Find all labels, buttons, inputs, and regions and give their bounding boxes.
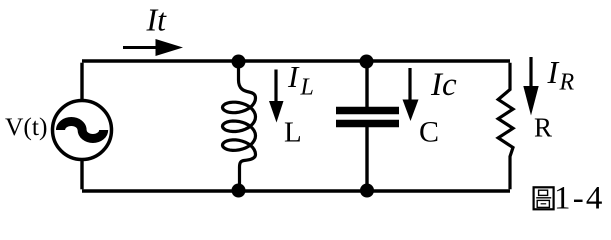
node top-right junction — [360, 55, 374, 69]
current arrow It — [123, 46, 159, 49]
svg-text:1-4: 1-4 — [554, 181, 605, 217]
svg-text:L: L — [284, 117, 302, 149]
svg-text:I: I — [287, 59, 300, 94]
svg-text:V(t): V(t) — [5, 112, 47, 141]
inductor L — [223, 63, 256, 190]
wire left lower — [80, 159, 83, 189]
node top-left junction — [232, 55, 246, 69]
node bottom-right junction — [360, 184, 374, 198]
wire bottom rail — [82, 189, 510, 192]
svg-text:R: R — [559, 70, 575, 96]
svg-text:Ic: Ic — [430, 67, 457, 103]
current arrow I_R — [529, 57, 532, 87]
node bottom-left junction — [232, 184, 246, 198]
current arrow Ic — [408, 68, 411, 101]
svg-text:C: C — [419, 116, 439, 149]
capacitor C — [365, 63, 368, 107]
svg-text:It: It — [146, 2, 168, 38]
svg-text:L: L — [300, 75, 314, 101]
wire top rail — [82, 59, 510, 62]
voltage source V(t) — [53, 101, 112, 160]
current arrow I_L — [274, 70, 277, 104]
svg-text:I: I — [547, 54, 560, 90]
wire left upper — [80, 63, 83, 101]
caption hanzi tu (drawn) — [534, 187, 554, 209]
resistor R — [498, 63, 513, 190]
svg-text:R: R — [534, 113, 552, 143]
